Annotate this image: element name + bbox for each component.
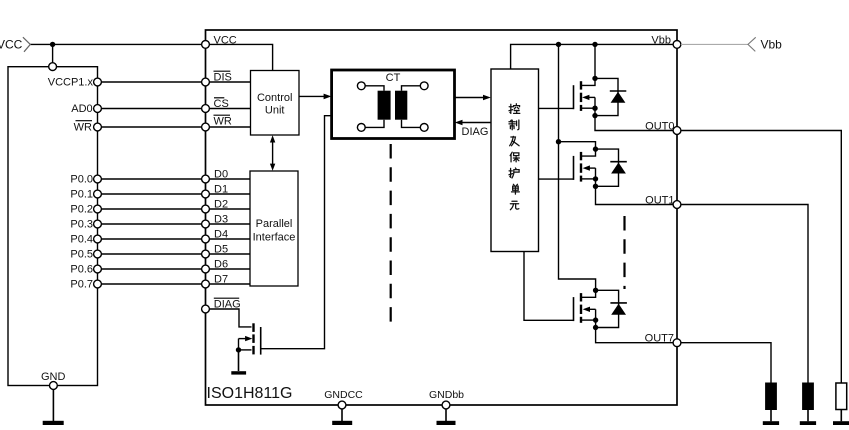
node diode D3 anode junction — [593, 325, 598, 330]
wire DIAG pin to transistor drain — [209, 309, 251, 327]
svg-text:P0.1: P0.1 — [70, 189, 93, 201]
svg-text:P0.7: P0.7 — [70, 279, 93, 291]
svg-text:Vbb: Vbb — [651, 34, 671, 46]
diode D3 freewheel loop — [596, 290, 619, 327]
Q3 channel bars — [580, 152, 582, 182]
svg-text:Vbb: Vbb — [761, 38, 783, 52]
diode D2 cathode bar — [610, 161, 627, 163]
arrow CT to protection unit — [455, 97, 484, 99]
pin circles microcontroller right edge — [94, 78, 102, 288]
svg-text:D1: D1 — [214, 184, 228, 196]
node junction on VCC wire — [50, 42, 55, 47]
wire Q4 source to OUT7 — [596, 328, 674, 343]
svg-text:WR: WR — [74, 122, 92, 134]
ground GNDCC bar — [332, 421, 352, 425]
wires P0.0-P0.7 to D0-D7 — [101, 179, 201, 284]
wire branch to OUT1 drain — [559, 142, 596, 149]
wire VCCP1.x to DIS — [101, 81, 201, 83]
ground GND stem — [52, 389, 54, 421]
resistor R2 load OUT1 (filled) — [803, 383, 814, 410]
pin circle GNDbb — [442, 401, 450, 409]
Q4 gate bar — [573, 297, 575, 321]
Q3 body arrow — [589, 167, 595, 169]
Q4 body arrow — [589, 308, 595, 310]
wire CT tap to DIAG transistor gate — [261, 116, 332, 349]
CT secondary winding bar — [395, 91, 407, 120]
svg-text:VCC: VCC — [0, 38, 23, 52]
parallel interface block — [250, 171, 298, 286]
dashed continuation line outputs — [623, 216, 625, 289]
label protection unit chinese text — [509, 104, 520, 210]
ground R1 bar — [833, 421, 849, 425]
svg-text:AD0: AD0 — [71, 103, 92, 115]
wire VCC down to microcontroller — [52, 44, 54, 62]
resistor R1 load OUT0 (open) — [836, 383, 847, 410]
ground Q1 bar — [231, 371, 246, 374]
svg-text:Parallel: Parallel — [256, 218, 293, 230]
ground Q1 source stem — [238, 350, 240, 371]
overline CS — [214, 97, 224, 99]
svg-text:CT: CT — [386, 72, 401, 84]
diode D3 cathode bar — [610, 302, 627, 304]
svg-text:DIAG: DIAG — [214, 299, 241, 311]
overline WR microcontroller — [76, 120, 93, 122]
svg-text:Interface: Interface — [253, 232, 296, 244]
ground GNDbb stem — [445, 409, 447, 421]
svg-text:Unit: Unit — [265, 105, 285, 117]
CT terminal circles — [357, 82, 428, 131]
control and protection unit block — [491, 69, 539, 252]
node rail junction right — [592, 42, 597, 47]
svg-text:D7: D7 — [214, 274, 228, 286]
Q4 source wire — [582, 319, 596, 321]
pin circle OUT1 — [673, 201, 681, 209]
transistor Q1 DIAG open-drain — [236, 323, 261, 354]
IC outline ISO1H811G — [206, 30, 678, 405]
ground R3 stem — [770, 410, 772, 422]
Q4 gate wire from protection block — [524, 252, 574, 321]
transistor Q4 OUT7 high-side switch — [524, 252, 673, 343]
wire WR to control unit — [209, 126, 250, 128]
svg-text:D3: D3 — [214, 214, 228, 226]
pin circle microcontroller GND — [50, 382, 58, 390]
pin circle GNDCC — [338, 401, 346, 409]
resistor R3 load OUT7 (filled) — [766, 383, 777, 410]
ground GNDCC stem — [341, 409, 343, 421]
wire Q3 source to OUT1 — [596, 186, 674, 204]
labels IC left pins — [214, 34, 241, 310]
pin circles IC left edge — [202, 41, 210, 313]
svg-text:GND: GND — [41, 371, 66, 383]
wire Vbb external (gray) — [681, 43, 748, 45]
Q3 source wire — [582, 178, 596, 180]
Q2 gate bar — [573, 85, 575, 109]
Q4 drain wire — [582, 290, 596, 297]
wire CS to control unit — [209, 108, 250, 110]
pin circle Vbb — [673, 41, 681, 49]
port Vbb chevron — [748, 37, 756, 51]
svg-text:DIAG: DIAG — [462, 126, 489, 138]
svg-text:P0.5: P0.5 — [70, 249, 93, 261]
Q4 channel bars — [580, 293, 582, 323]
overline DIS — [214, 70, 231, 72]
wire OUT7 to load — [681, 343, 771, 383]
Q2 source wire — [582, 107, 595, 109]
node Q4 source junction — [593, 317, 598, 322]
svg-text:D5: D5 — [214, 244, 228, 256]
Q3 gate bar — [573, 156, 575, 180]
control unit block — [251, 71, 300, 136]
Q2 channel bars — [580, 81, 582, 111]
Q1 body arrow — [239, 338, 247, 340]
CT winding wires — [365, 86, 420, 128]
diode D3 triangle — [611, 304, 626, 315]
transistor Q2 OUT0 high-side switch — [539, 76, 674, 131]
wire Q2 source to OUT0 — [595, 116, 673, 131]
CT primary winding bar — [378, 91, 391, 120]
diode D2 freewheel loop — [596, 149, 619, 186]
Q2 drain wire — [582, 78, 595, 85]
wire AD0 to CS — [101, 108, 201, 110]
svg-text:D4: D4 — [214, 229, 228, 241]
wire OUT0 to load — [681, 131, 841, 384]
diode D1 triangle — [611, 92, 626, 103]
svg-text:GNDCC: GNDCC — [324, 389, 363, 401]
arrow control unit to CT — [299, 95, 325, 97]
wires D0-D7 to parallel interface — [209, 179, 250, 284]
ground R1 stem — [840, 410, 842, 422]
node Q2 source junction — [592, 106, 597, 111]
node diode D1 anode junction — [592, 113, 597, 118]
ground R2 stem — [807, 410, 809, 422]
svg-text:D6: D6 — [214, 259, 228, 271]
node diode D2 anode junction — [593, 184, 598, 189]
Q1 source wire — [239, 349, 252, 351]
svg-text:DIS: DIS — [214, 72, 232, 84]
svg-text:VCCP1.x: VCCP1.x — [48, 77, 94, 89]
svg-text:P0.3: P0.3 — [70, 219, 93, 231]
pin circle OUT0 — [673, 127, 681, 135]
node rail junction left — [556, 42, 561, 47]
port VCC chevron — [23, 37, 30, 52]
wire VCC input to IC — [30, 43, 201, 45]
node Q4 drain junction — [593, 288, 598, 293]
dashed isolation line below CT — [390, 144, 392, 329]
svg-text:P0.2: P0.2 — [70, 204, 93, 216]
svg-text:CS: CS — [214, 98, 229, 110]
wire Vbb rail top — [511, 44, 674, 69]
overline DIAG — [214, 297, 239, 299]
svg-text:GNDbb: GNDbb — [429, 389, 464, 401]
diode D1 cathode bar — [610, 90, 627, 92]
ground R3 bar — [763, 421, 779, 425]
labels microcontroller pins — [48, 77, 94, 291]
pin circle OUT7 — [673, 339, 681, 347]
wire rail to OUT0 drain — [594, 44, 596, 78]
node Q1 source junction — [236, 347, 241, 352]
Q1 channel bars — [252, 323, 254, 354]
wire DIS to control unit — [209, 81, 250, 83]
ground GND bar — [43, 421, 64, 425]
svg-text:P0.0: P0.0 — [70, 174, 93, 186]
diode D1 freewheel loop — [595, 78, 618, 115]
wire VCC pin to control unit — [209, 44, 272, 70]
node Q3 source junction — [593, 176, 598, 181]
svg-text:Control: Control — [257, 92, 292, 104]
svg-text:D2: D2 — [214, 199, 228, 211]
node Q2 drain junction — [592, 76, 597, 81]
labels IC right pins — [645, 34, 675, 344]
arrow protection unit to CT diag return — [462, 122, 491, 124]
ground R2 bar — [800, 421, 816, 425]
microcontroller block — [8, 67, 98, 386]
node rail to OUT1 branch — [556, 139, 561, 144]
wire WR to WR — [101, 126, 201, 128]
transistor Q3 OUT1 high-side switch — [539, 146, 674, 204]
Q1 gate bar — [260, 327, 262, 355]
node Q3 drain junction — [593, 146, 598, 151]
Q2 body arrow — [589, 96, 595, 98]
diode D2 triangle — [611, 163, 626, 174]
ground GNDbb bar — [437, 421, 456, 425]
svg-text:VCC: VCC — [214, 34, 237, 46]
svg-text:WR: WR — [214, 116, 232, 128]
Q3 drain wire — [582, 149, 596, 156]
Q2 gate wire — [539, 107, 574, 109]
wire OUT1 to load — [681, 205, 808, 384]
Q3 gate wire — [539, 178, 574, 180]
bus arrow control unit to parallel interface — [270, 135, 275, 171]
svg-text:P0.4: P0.4 — [70, 234, 93, 246]
transformer block CT — [332, 70, 455, 139]
svg-text:P0.6: P0.6 — [70, 264, 93, 276]
overline WR — [214, 114, 231, 116]
svg-text:ISO1H811G: ISO1H811G — [207, 385, 293, 402]
wire rail left branch down — [559, 44, 596, 290]
pin circle microcontroller VCC — [49, 63, 57, 71]
svg-text:D0: D0 — [214, 169, 228, 181]
